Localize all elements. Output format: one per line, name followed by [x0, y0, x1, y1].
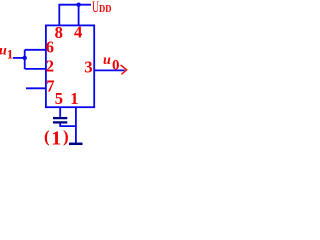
svg-text:2: 2 [46, 57, 54, 76]
svg-text:1: 1 [7, 47, 14, 62]
svg-text:0: 0 [112, 58, 120, 74]
svg-text:3: 3 [84, 57, 92, 76]
svg-text:1: 1 [51, 128, 61, 149]
svg-text:): ) [63, 127, 69, 146]
svg-text:5: 5 [55, 89, 63, 108]
svg-text:6: 6 [46, 38, 54, 57]
svg-text:1: 1 [70, 89, 78, 108]
svg-text:u: u [103, 53, 111, 68]
svg-text:7: 7 [46, 77, 54, 96]
svg-text:(: ( [44, 127, 50, 146]
svg-text:4: 4 [74, 22, 82, 41]
svg-text:8: 8 [55, 23, 63, 42]
svg-text:DD: DD [99, 4, 112, 15]
